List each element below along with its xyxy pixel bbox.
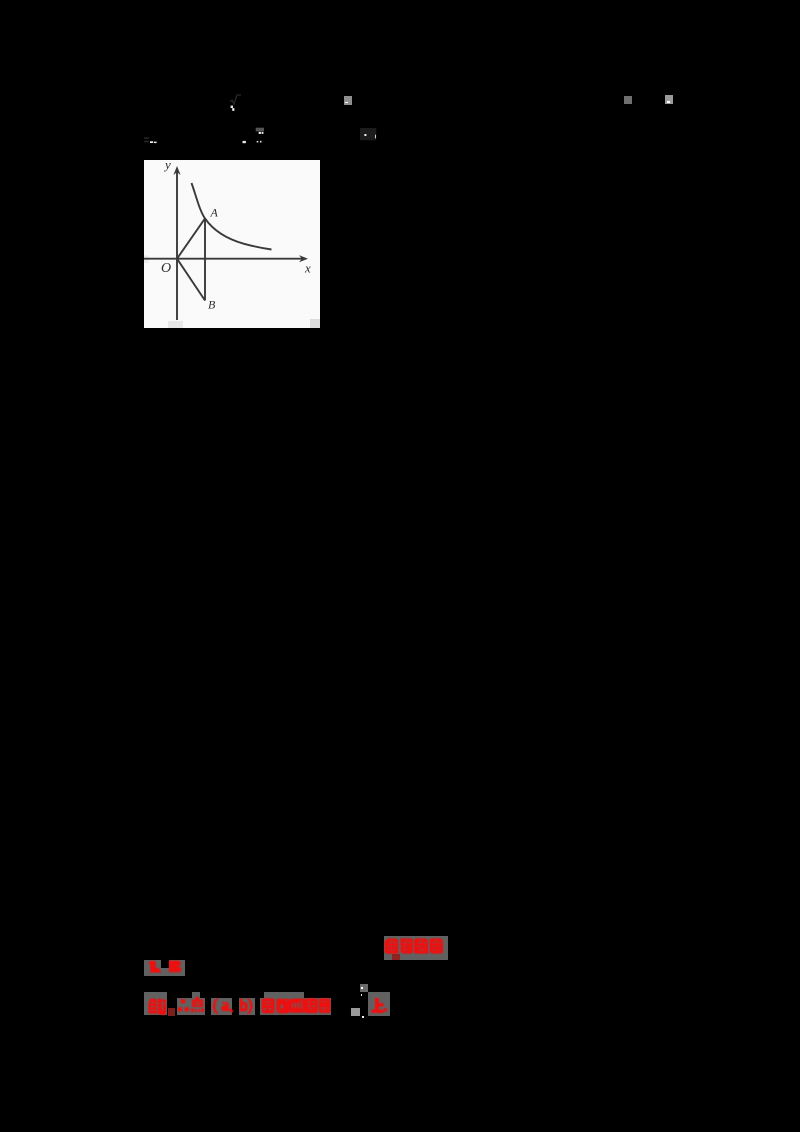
run: 上， highlight [368,992,390,1016]
数 [318,998,330,1013]
b） glyphs [239,997,255,1016]
bottom-left gray artifact [168,321,183,328]
figure: white graph box [144,160,320,328]
black notch between 1、 and B [161,960,169,969]
fraction image remnants [351,1008,360,1016]
segment O to B [177,259,205,301]
案 [430,938,443,953]
y-axis [176,172,178,320]
上， glyphs [371,998,388,1014]
（a， glyphs [211,997,235,1016]
letter B [169,960,181,972]
taller gray top over 反比例 [264,992,304,998]
segment O to A [177,218,205,258]
faint formula remnants top row 2 (middle, 2 root 3) [240,126,268,144]
header 参考答案 (red on gray) [384,936,448,961]
x-axis arrowhead [299,255,308,262]
答 [414,938,428,953]
digit 1 [149,960,156,972]
例 [289,999,304,1013]
run: b） highlight [239,998,255,1016]
解 glyph [148,998,167,1015]
hyperbola curve [192,183,272,250]
run: because-dot + 点 highlight [177,998,206,1015]
svg-text:O: O [161,261,171,276]
点 glyph [191,997,204,1014]
svg-text:B: B [208,298,216,312]
faint formula remnants top row 2 (right) [360,128,377,141]
segment A to B [204,218,206,300]
x-axis [144,258,302,260]
tall sliver above 点 [192,992,200,999]
run: 反比例函数 highlight [260,998,331,1016]
dun comma [154,967,161,972]
faint formula remnants top row 1 [228,94,244,111]
svg-text:x: x [304,261,311,276]
faint formula remnants top row 2 (left) [143,135,159,145]
因为 symbol (dots) [178,999,189,1013]
比 [276,999,289,1013]
dim red descender under 参 [392,954,400,960]
反比例函数 glyphs [261,998,331,1014]
run: （a， highlight [211,998,232,1015]
参 [385,938,399,953]
bottom-right gray artifact [310,319,320,328]
svg-text:A: A [210,206,219,220]
colon (dark red) [168,1008,175,1016]
gray square placeholder 2 [624,96,632,104]
svg-text:y: y [163,160,171,172]
函 [304,998,317,1013]
left edge gray artifact [144,256,149,264]
y-axis arrowhead [173,166,180,175]
解 highlight box [144,992,167,1015]
gray square placeholder 3 [665,95,673,104]
answer line: 1、B (red on gray) [144,960,185,976]
反 [261,998,274,1013]
考 [401,938,414,953]
gray square placeholder 1 [344,96,352,105]
